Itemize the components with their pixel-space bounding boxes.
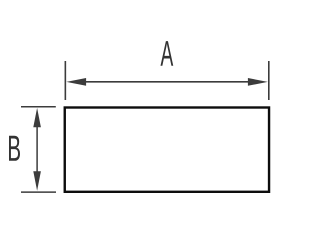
dimension B up arrowhead [33, 108, 41, 127]
dimension A left arrowhead [66, 78, 86, 86]
dimension B down arrowhead [33, 171, 41, 190]
dimension A left extension line [64, 61, 66, 100]
label A [160, 41, 173, 66]
dimension B top tick [21, 106, 56, 108]
dimension A right arrowhead [248, 78, 268, 86]
dimension A right extension line [268, 61, 270, 100]
label B [9, 136, 20, 161]
dimension B line [36, 126, 38, 173]
rectangle bar outline [65, 108, 269, 192]
dimension A line [84, 81, 250, 83]
dimension B bottom tick [21, 191, 56, 193]
